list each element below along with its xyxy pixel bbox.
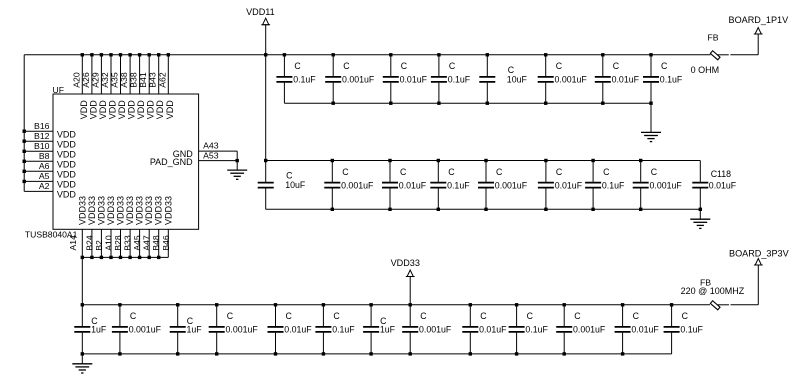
wire BOARD_3P3V vertical — [757, 265, 759, 305]
power symbol VDD11 — [261, 18, 270, 25]
pin A5 VDD left pin wire — [24, 180, 53, 182]
svg-text:A62: A62 — [157, 72, 167, 88]
junction dot pin B38 on VDD11 bus — [138, 53, 141, 56]
wire left VDD bus vertical — [23, 55, 25, 192]
svg-text:VDD: VDD — [146, 100, 156, 120]
svg-text:UF: UF — [53, 85, 64, 95]
junction dot row2 cap 4 top — [437, 159, 440, 162]
wire row1 ground rail — [284, 102, 651, 104]
junction dot row2 cap 2 top — [331, 159, 334, 162]
svg-text:VDD33: VDD33 — [96, 196, 106, 225]
svg-text:VDD33: VDD33 — [116, 196, 126, 225]
svg-text:A53: A53 — [203, 150, 219, 160]
capacitor C 0.01uF at x=602.8 — [595, 55, 640, 103]
svg-text:A47: A47 — [142, 235, 152, 251]
wire row1 rail to ground lead — [650, 103, 652, 132]
capacitor C 0.1uF at x=323.4 — [315, 305, 355, 354]
svg-text:VDD: VDD — [57, 130, 77, 140]
junction dot row2 cap 8 top — [639, 159, 642, 162]
capacitor C 0.1uF at x=284.4 — [276, 55, 316, 103]
svg-text:VDD: VDD — [57, 170, 77, 180]
svg-text:B2: B2 — [94, 240, 104, 251]
pin A26 VDD top pin wire — [91, 55, 93, 94]
capacitor C 0.001uF at x=640.7 — [633, 161, 683, 210]
svg-text:B41: B41 — [138, 72, 148, 88]
junction dot pin A20 on VDD11 bus — [81, 53, 84, 56]
junction dot row1 cap 4 top — [437, 53, 440, 56]
svg-text:0 OHM: 0 OHM — [691, 65, 720, 75]
capacitor C 0.001uF at x=545.7 — [538, 55, 588, 103]
pin A29 VDD top pin wire — [100, 55, 102, 94]
svg-text:0.1uF: 0.1uF — [660, 75, 683, 85]
junction dot pin A6 on left bus — [23, 170, 26, 173]
junction dot row3 cap 2 top — [118, 303, 121, 306]
junction dot row3 cap 4 top — [215, 303, 218, 306]
capacitor C 0.1uF at x=516.6 — [509, 305, 549, 354]
svg-text:VDD33: VDD33 — [391, 258, 420, 268]
junction dot row3 cap 6 top — [322, 303, 325, 306]
svg-text:0.01uF: 0.01uF — [631, 325, 659, 335]
op-amp U? : IC UF TUSB8040A1 body — [53, 94, 199, 229]
svg-text:C: C — [401, 61, 408, 71]
svg-text:0.001uF: 0.001uF — [342, 75, 375, 85]
junction dot row3 cap 11 bottom — [563, 352, 566, 355]
junction dot row1 cap 3 top — [389, 53, 392, 56]
capacitor C 0.1uF at x=438.9 — [431, 55, 471, 103]
ground row3 rail — [72, 364, 92, 373]
junction dot pin B10 on left bus — [23, 150, 26, 153]
junction dot pin A26 on VDD11 bus — [90, 53, 93, 56]
capacitor C 0.1uF at x=593.1 — [585, 161, 625, 210]
svg-text:A14: A14 — [68, 235, 78, 251]
pin A35 VDD top pin wire — [120, 55, 122, 94]
svg-text:1uF: 1uF — [187, 325, 203, 335]
svg-text:C: C — [603, 167, 610, 177]
junction dot row3 cap 8 bottom — [409, 352, 412, 355]
junction dot row3 cap 11 top — [563, 303, 566, 306]
svg-text:A5: A5 — [39, 171, 50, 181]
junction dot row3 cap 7 top — [369, 303, 372, 306]
svg-text:0.001uF: 0.001uF — [495, 180, 528, 190]
svg-text:VDD11: VDD11 — [246, 7, 275, 17]
svg-text:B46: B46 — [161, 235, 171, 251]
svg-text:VDD33: VDD33 — [77, 196, 87, 225]
svg-text:A6: A6 — [39, 161, 50, 171]
wire VDD33 symbol drop to row3 bus — [409, 277, 411, 305]
pin B2 VDD33 bottom pin wire — [100, 229, 102, 257]
svg-text:0.1uF: 0.1uF — [602, 180, 625, 190]
svg-text:A35: A35 — [110, 72, 120, 88]
capacitor C 10uF at x=265.7 — [258, 161, 306, 210]
svg-text:C: C — [508, 65, 515, 75]
junction dot row1 cap 4 bottom — [437, 102, 440, 105]
pin A2 VDD left pin wire — [24, 190, 53, 192]
svg-text:VDD33: VDD33 — [125, 196, 135, 225]
ground chip PAD_GND — [227, 170, 247, 179]
wire VDD11 symbol drop to row2 bus — [265, 25, 267, 161]
junction dot row1 cap 3 bottom — [389, 102, 392, 105]
wire row2 rail to ground lead — [699, 209, 701, 219]
svg-text:VDD: VDD — [136, 100, 146, 120]
svg-text:A29: A29 — [90, 72, 100, 88]
svg-text:BOARD_1P1V: BOARD_1P1V — [729, 15, 790, 25]
junction dot pin A32 on VDD11 bus — [109, 53, 112, 56]
capacitor C 0.01uF at x=390.0 — [382, 161, 427, 210]
capacitor C118 0.01uF at x=700.3 — [692, 161, 737, 210]
junction dot A43/A53 wires — [236, 159, 239, 162]
svg-text:VDD33: VDD33 — [106, 196, 116, 225]
junction dot row2 cap 7 top — [591, 159, 594, 162]
svg-text:VDD: VDD — [108, 100, 118, 120]
svg-text:0.1uF: 0.1uF — [293, 75, 316, 85]
pin A14 VDD33 bottom pin wire — [81, 229, 83, 257]
wire BOARD_1P1V vertical — [757, 34, 759, 55]
svg-text:0.001uF: 0.001uF — [419, 325, 452, 335]
junction dot row3 cap 12 top — [621, 303, 624, 306]
junction dot pin A38 on VDD11 bus — [128, 53, 131, 56]
wire FB2 right stub — [718, 304, 730, 306]
junction dot row3 cap 10 bottom — [515, 352, 518, 355]
junction dot row2 cap 2 bottom — [331, 208, 334, 211]
junction dot row3 cap 6 bottom — [322, 352, 325, 355]
junction dot pin B16 on left bus — [23, 130, 26, 133]
capacitor C 0.01uF at x=470.3 — [462, 305, 507, 354]
junction dot row1 cap 5 top — [486, 53, 489, 56]
junction dot pin A10 on bottom bus — [109, 256, 112, 259]
svg-text:A2: A2 — [39, 181, 50, 191]
svg-text:C: C — [448, 167, 455, 177]
svg-text:PAD_GND: PAD_GND — [150, 157, 193, 167]
svg-text:0.001uF: 0.001uF — [650, 180, 683, 190]
svg-text:VDD: VDD — [57, 180, 77, 190]
svg-text:C: C — [661, 61, 668, 71]
capacitor C 0.001uF at x=486.0 — [478, 161, 528, 210]
svg-text:C: C — [420, 311, 427, 321]
svg-text:C: C — [400, 167, 407, 177]
capacitor C 10uF at x=487.3 — [479, 55, 527, 103]
wire row2 VDD11 bus — [266, 160, 701, 162]
svg-text:VDD: VDD — [165, 100, 175, 120]
svg-text:C: C — [496, 167, 503, 177]
svg-text:B48: B48 — [151, 235, 161, 251]
svg-text:C: C — [294, 61, 301, 71]
wire VDD11 top bus — [24, 54, 710, 56]
junction dot pin A29 on VDD11 bus — [100, 53, 103, 56]
junction dot row3 cap 9 bottom — [469, 352, 472, 355]
svg-text:C: C — [633, 311, 640, 321]
svg-text:VDD: VDD — [57, 140, 77, 150]
svg-text:VDD: VDD — [117, 100, 127, 120]
ferrite bead FB top — [710, 51, 720, 60]
pin B38 VDD top pin wire — [139, 55, 141, 94]
pin A6 VDD left pin wire — [24, 170, 53, 172]
junction dot row3 cap 3 top — [176, 303, 179, 306]
junction dot row3 cap 4 bottom — [215, 352, 218, 355]
svg-text:0.1uF: 0.1uF — [680, 325, 703, 335]
junction dot pin B8 on left bus — [23, 160, 26, 163]
svg-text:C: C — [286, 311, 293, 321]
svg-text:A43: A43 — [203, 141, 219, 151]
svg-text:C: C — [682, 311, 689, 321]
ferrite bead FB bottom — [710, 301, 720, 310]
junction dot pin B43 on VDD11 bus — [157, 53, 160, 56]
svg-text:VDD33: VDD33 — [87, 196, 97, 225]
svg-text:A10: A10 — [104, 235, 114, 251]
svg-text:FB: FB — [707, 32, 718, 42]
pin A32 VDD top pin wire — [110, 55, 112, 94]
junction dot row3 cap 10 top — [515, 303, 518, 306]
junction dot row3 cap 1 bottom — [81, 352, 84, 355]
junction dot row2 cap 4 bottom — [437, 208, 440, 211]
pin A45 VDD33 bottom pin wire — [139, 229, 141, 257]
ground row2 rail — [690, 219, 710, 228]
pin B41 VDD top pin wire — [148, 55, 150, 94]
junction dot row1 cap 2 top — [332, 53, 335, 56]
junction dot row1 cap 7 bottom — [601, 102, 604, 105]
capacitor C 1uF at x=371.1 — [363, 305, 396, 354]
capacitor C 0.001uF at x=410.2 — [402, 305, 452, 354]
junction dot VDD11 drop on top bus — [264, 53, 267, 56]
svg-text:C: C — [556, 61, 563, 71]
junction dot row2 cap 5 bottom — [484, 208, 487, 211]
capacitor C 0.01uF at x=390.8 — [383, 55, 428, 103]
capacitor C 0.001uF at x=564.2 — [556, 305, 606, 354]
junction dot pin A45 on bottom bus — [138, 256, 141, 259]
svg-text:B16: B16 — [34, 121, 50, 131]
junction dot pin B33 on bottom bus — [128, 256, 131, 259]
junction dot pin A35 on VDD11 bus — [119, 53, 122, 56]
wire row3 VDD33 bus — [82, 304, 710, 306]
capacitor C 0.001uF at x=332.3 — [324, 161, 374, 210]
svg-text:B24: B24 — [84, 235, 94, 251]
junction dot row3 cap 3 bottom — [176, 352, 179, 355]
svg-text:10uF: 10uF — [285, 180, 306, 190]
junction dot row2 cap 8 bottom — [639, 208, 642, 211]
pin B33 VDD33 bottom pin wire — [129, 229, 131, 257]
svg-text:C: C — [480, 311, 487, 321]
svg-text:0.01uF: 0.01uF — [284, 325, 312, 335]
pin B46 VDD33 bottom pin wire — [167, 229, 169, 257]
svg-text:A32: A32 — [100, 72, 110, 88]
svg-text:B43: B43 — [148, 72, 158, 88]
capacitor C 1uF at x=82.3 — [74, 305, 107, 354]
svg-text:0.001uF: 0.001uF — [555, 75, 588, 85]
junction dot C118 bottom rail/ground — [699, 208, 702, 211]
junction dot row2 cap 6 top — [544, 159, 547, 162]
svg-text:0.1uF: 0.1uF — [448, 75, 471, 85]
svg-text:0.1uF: 0.1uF — [525, 325, 548, 335]
svg-text:0.001uF: 0.001uF — [341, 180, 374, 190]
junction dot row3 cap 5 top — [274, 303, 277, 306]
svg-text:C: C — [333, 311, 340, 321]
svg-text:C: C — [227, 311, 234, 321]
capacitor C 0.01uF at x=275.5 — [268, 305, 313, 354]
svg-text:0.01uF: 0.01uF — [555, 180, 583, 190]
svg-text:0.001uF: 0.001uF — [573, 325, 606, 335]
svg-text:VDD: VDD — [127, 100, 137, 120]
svg-text:B10: B10 — [34, 141, 50, 151]
junction dot row3 cap 2 bottom — [118, 352, 121, 355]
junction dot row3 cap 8 top — [409, 303, 412, 306]
pin B16 VDD left pin wire — [24, 130, 53, 132]
svg-text:C: C — [286, 171, 293, 181]
junction dot row2 cap 7 bottom — [591, 208, 594, 211]
capacitor C 0.001uF at x=333.2 — [325, 55, 375, 103]
svg-text:0.01uF: 0.01uF — [479, 325, 507, 335]
junction dot row3 cap 9 top — [469, 303, 472, 306]
junction dot row3 cap 7 bottom — [369, 352, 372, 355]
junction dot row1 cap 8 top — [649, 53, 652, 56]
pin A43 GND wire — [199, 150, 238, 152]
svg-text:0.01uF: 0.01uF — [400, 75, 428, 85]
junction dot row1 cap 2 bottom — [332, 102, 335, 105]
junction dot pin B48 on bottom bus — [157, 256, 160, 259]
svg-text:1uF: 1uF — [380, 325, 396, 335]
svg-text:B12: B12 — [34, 131, 50, 141]
svg-text:A45: A45 — [132, 235, 142, 251]
wire VDD33 drop from bottom bus to row3 bus — [81, 257, 83, 304]
svg-text:VDD33: VDD33 — [163, 196, 173, 225]
wire FB2 to BOARD_3P3V corner — [731, 304, 759, 306]
junction dot pin A14 on bottom bus — [81, 256, 84, 259]
capacitor C 0.01uF at x=545.9 — [538, 161, 583, 210]
svg-text:VDD33: VDD33 — [135, 196, 145, 225]
svg-text:C: C — [574, 311, 581, 321]
pin A62 VDD top pin wire — [167, 55, 169, 94]
junction dot row1 cap 6 bottom — [544, 102, 547, 105]
junction dot row2 cap 6 bottom — [544, 208, 547, 211]
junction dot VDD11 drop on row2 bus — [264, 159, 267, 162]
junction dot pin A62 on VDD11 bus — [167, 53, 170, 56]
svg-text:C: C — [343, 61, 350, 71]
pin B8 VDD left pin wire — [24, 160, 53, 162]
svg-text:0.001uF: 0.001uF — [226, 325, 259, 335]
capacitor C 0.1uF at x=651.0 — [643, 55, 683, 103]
svg-text:VDD: VDD — [155, 100, 165, 120]
junction dot pin B41 on VDD11 bus — [148, 53, 151, 56]
junction dot pin A5 on left bus — [23, 180, 26, 183]
svg-text:VDD: VDD — [79, 100, 89, 120]
svg-text:VDD: VDD — [57, 150, 77, 160]
junction dot pin B12 on left bus — [23, 140, 26, 143]
svg-text:0.1uF: 0.1uF — [332, 325, 355, 335]
junction dot pin B2 on bottom bus — [100, 256, 103, 259]
junction dot row2 cap 3 bottom — [388, 208, 391, 211]
svg-text:C: C — [527, 311, 534, 321]
junction dot row1 cap 6 top — [544, 53, 547, 56]
junction dot row2 cap 5 top — [484, 159, 487, 162]
capacitor C 0.001uF at x=216.7 — [209, 305, 259, 354]
capacitor C 0.01uF at x=622.6 — [615, 305, 660, 354]
svg-text:A38: A38 — [119, 72, 129, 88]
pin B12 VDD left pin wire — [24, 140, 53, 142]
svg-text:C: C — [342, 167, 349, 177]
ground row1 rail — [641, 132, 661, 141]
pin B28 VDD33 bottom pin wire — [120, 229, 122, 257]
power symbol BOARD_1P1V — [754, 28, 763, 35]
svg-text:BOARD_3P3V: BOARD_3P3V — [729, 248, 790, 258]
svg-text:0.001uF: 0.001uF — [129, 325, 162, 335]
pin B43 VDD top pin wire — [158, 55, 160, 94]
svg-text:0.1uF: 0.1uF — [447, 180, 470, 190]
wire FB right stub — [718, 54, 729, 56]
svg-text:A26: A26 — [81, 72, 91, 88]
pin B10 VDD left pin wire — [24, 150, 53, 152]
junction dot row1 cap 5 bottom — [486, 102, 489, 105]
wire FB to BOARD_1P1V corner — [730, 54, 758, 56]
svg-text:220 @ 100MHZ: 220 @ 100MHZ — [681, 286, 745, 296]
pin A20 VDD top pin wire — [81, 55, 83, 94]
svg-text:C: C — [449, 61, 456, 71]
svg-text:0.01uF: 0.01uF — [612, 75, 640, 85]
wire chip bottom VDD33 bus — [82, 256, 168, 258]
svg-text:C: C — [130, 311, 137, 321]
wire GND pins vertical to ground — [236, 151, 238, 170]
junction dot row3 cap 12 bottom — [621, 352, 624, 355]
pin A38 VDD top pin wire — [129, 55, 131, 94]
svg-text:1uF: 1uF — [91, 325, 107, 335]
svg-text:10uF: 10uF — [507, 75, 528, 85]
junction dot row3 cap 1 top — [81, 303, 84, 306]
svg-text:VDD33: VDD33 — [154, 196, 164, 225]
svg-text:C: C — [556, 167, 563, 177]
svg-text:B8: B8 — [39, 151, 50, 161]
wire row2 ground rail — [266, 208, 701, 210]
svg-text:B38: B38 — [129, 72, 139, 88]
wire row3 rail to ground lead — [81, 354, 83, 364]
svg-text:VDD: VDD — [98, 100, 108, 120]
junction dot pin A47 on bottom bus — [148, 256, 151, 259]
svg-text:C: C — [651, 167, 658, 177]
junction dot row3 cap 5 bottom — [274, 352, 277, 355]
svg-text:A20: A20 — [71, 72, 81, 88]
svg-text:C118: C118 — [711, 169, 731, 179]
junction dot row3 cap 13 top — [670, 303, 673, 306]
junction dot pin B24 on bottom bus — [90, 256, 93, 259]
junction dot pin B28 on bottom bus — [119, 256, 122, 259]
svg-text:0.01uF: 0.01uF — [709, 180, 737, 190]
pin A53 PAD_GND wire — [199, 160, 238, 162]
pin A10 VDD33 bottom pin wire — [110, 229, 112, 257]
svg-text:VDD: VDD — [57, 190, 77, 200]
junction dot row1 cap 7 top — [601, 53, 604, 56]
pin B48 VDD33 bottom pin wire — [158, 229, 160, 257]
pin B24 VDD33 bottom pin wire — [91, 229, 93, 257]
wire row3 ground rail — [82, 353, 671, 355]
svg-text:VDD: VDD — [57, 160, 77, 170]
pin A47 VDD33 bottom pin wire — [148, 229, 150, 257]
svg-text:0.01uF: 0.01uF — [399, 180, 427, 190]
svg-text:VDD: VDD — [88, 100, 98, 120]
svg-text:B28: B28 — [113, 235, 123, 251]
capacitor C 0.1uF at x=438.3 — [430, 161, 470, 210]
junction dot row2 cap 3 top — [388, 159, 391, 162]
svg-text:C: C — [613, 61, 620, 71]
power symbol VDD33 — [406, 270, 415, 277]
capacitor C 0.1uF at x=671.6 — [664, 305, 704, 354]
capacitor C 1uF at x=177.7 — [170, 305, 203, 354]
capacitor C 0.001uF at x=119.9 — [112, 305, 162, 354]
junction dot row1 cap 1 top — [283, 53, 286, 56]
svg-text:VDD33: VDD33 — [144, 196, 154, 225]
svg-text:B33: B33 — [123, 235, 133, 251]
junction dot row1 cap 8 bottom — [649, 102, 652, 105]
power symbol BOARD_3P3V — [754, 259, 763, 266]
